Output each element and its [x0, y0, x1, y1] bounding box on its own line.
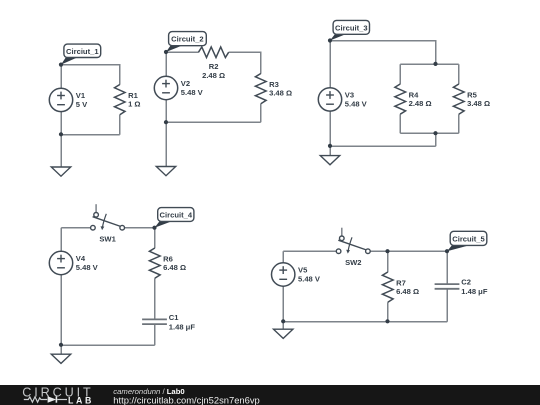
- svg-text:R3: R3: [269, 80, 279, 89]
- wire: V4 top lead: [60, 228, 62, 252]
- wire: bottom bus R4/R5: [400, 132, 459, 134]
- wire: R5 bottom lead: [458, 114, 460, 133]
- footer bar: [0, 385, 540, 405]
- wire: V3+ to parallel bank: [330, 41, 436, 65]
- wire: R3 bottom lead: [260, 104, 262, 123]
- svg-text:Circuit_4: Circuit_4: [160, 211, 193, 220]
- wire: C2 bottom lead: [446, 289, 448, 322]
- svg-text:V1: V1: [76, 91, 86, 100]
- svg-text:5.48 V: 5.48 V: [298, 275, 321, 284]
- wire: bank to bottom rail: [435, 133, 437, 146]
- wire: top rail circuit 1: [61, 65, 120, 85]
- wire: ground lead circuit 5: [282, 322, 284, 330]
- node label Circuit_3: [328, 20, 370, 42]
- wire: V3 bottom lead: [329, 111, 331, 146]
- footer project title: [113, 387, 184, 396]
- svg-text:5 V: 5 V: [76, 100, 88, 109]
- wire: bottom rail circuit 1: [61, 134, 120, 136]
- capacitor C2: [435, 278, 488, 296]
- svg-text:5.48 V: 5.48 V: [181, 88, 204, 97]
- wire: SW1 to R6 node: [125, 227, 155, 229]
- wire: V5+ to SW2: [283, 250, 337, 252]
- resistor R1: [115, 85, 141, 115]
- ground: [274, 329, 293, 338]
- junction: V1- to ground: [59, 132, 63, 136]
- junction: V2- to ground: [164, 120, 168, 124]
- wire: SW2 to C2 node: [370, 250, 447, 252]
- wire: bottom rail circuit 5: [283, 321, 447, 323]
- wire: bottom rail circuit 2: [166, 121, 261, 123]
- ground: [320, 156, 339, 165]
- resistor R5: [453, 84, 490, 114]
- svg-text:R5: R5: [467, 90, 477, 99]
- wire: R6 to C1: [154, 278, 156, 320]
- svg-text:R7: R7: [396, 278, 406, 287]
- svg-text:R2: R2: [209, 62, 219, 71]
- ground: [51, 354, 70, 363]
- wire: V4+ to SW1: [61, 227, 91, 229]
- node label Circuit_4: [152, 208, 194, 230]
- junction: V4- to ground: [59, 343, 63, 347]
- svg-text:5.48 V: 5.48 V: [345, 99, 368, 108]
- switch SW2: [336, 228, 370, 267]
- capacitor C1: [142, 313, 195, 331]
- node label Circuit_5: [445, 231, 487, 253]
- wire: V2+ to R2: [166, 51, 199, 53]
- svg-text:V3: V3: [345, 91, 354, 100]
- resistor R6: [149, 248, 186, 278]
- wire: V1 bottom lead: [60, 112, 62, 135]
- wire: C1 bottom lead: [154, 324, 156, 345]
- wire: V3 top lead: [329, 41, 331, 88]
- wire: R5 top lead: [458, 64, 460, 84]
- wire: ground lead circuit 1: [60, 135, 62, 168]
- svg-text:V2: V2: [181, 79, 190, 88]
- svg-text:1 Ω: 1 Ω: [128, 100, 140, 109]
- junction: V3- to ground: [328, 144, 332, 148]
- wire: R4 top lead: [399, 64, 401, 84]
- wire: ground lead circuit 3: [329, 146, 331, 156]
- wire: V2 bottom lead: [165, 100, 167, 123]
- junction: top bus feed: [433, 62, 437, 66]
- svg-text:Circuit_5: Circuit_5: [452, 234, 485, 243]
- svg-text:Circuit_3: Circuit_3: [335, 23, 368, 32]
- svg-text:Circiut_1: Circiut_1: [66, 47, 99, 56]
- wire: R2 to R3: [229, 52, 261, 74]
- wire: V5 top lead: [282, 251, 284, 263]
- node label Circuit_2: [164, 32, 206, 55]
- switch SW1: [91, 204, 125, 243]
- svg-text:2.48 Ω: 2.48 Ω: [409, 99, 432, 108]
- wire: V2 top lead: [165, 52, 167, 77]
- svg-text:C1: C1: [169, 313, 179, 322]
- resistor R3: [255, 74, 292, 104]
- svg-text:R4: R4: [409, 90, 419, 99]
- svg-text:3.48 Ω: 3.48 Ω: [467, 99, 490, 108]
- wire: ground lead circuit 4: [60, 345, 62, 354]
- resistor R7: [382, 272, 419, 302]
- wire: R7 bottom lead: [387, 302, 389, 322]
- svg-text:SW2: SW2: [345, 258, 361, 267]
- voltage source V2: [154, 76, 203, 99]
- junction: bottom bus feed: [433, 131, 437, 135]
- wire: bottom rail circuit 4: [61, 344, 155, 346]
- wire: ground lead circuit 2: [165, 122, 167, 167]
- svg-text:5.48 V: 5.48 V: [76, 263, 99, 272]
- resistor R2: [199, 47, 229, 80]
- junction: R7 top: [385, 249, 389, 253]
- junction: R7 bottom: [385, 319, 389, 323]
- resistor R4: [395, 84, 432, 114]
- wire: R6 top lead: [154, 228, 156, 249]
- svg-text:LAB: LAB: [68, 396, 91, 405]
- svg-text:2.48 Ω: 2.48 Ω: [202, 71, 225, 80]
- ground: [156, 167, 175, 176]
- svg-text:1.48 μF: 1.48 μF: [461, 287, 488, 296]
- svg-text:1.48 μF: 1.48 μF: [169, 322, 196, 331]
- svg-text:http://circuitlab.com/cjn52sn7: http://circuitlab.com/cjn52sn7en6vp: [113, 394, 259, 405]
- voltage source V4: [49, 251, 98, 274]
- svg-text:3.48 Ω: 3.48 Ω: [269, 89, 292, 98]
- ground: [51, 167, 70, 176]
- wire: V4 bottom lead: [60, 275, 62, 346]
- svg-text:R6: R6: [163, 254, 173, 263]
- wire: V1 top lead: [60, 65, 62, 89]
- svg-text:Circuit_2: Circuit_2: [171, 35, 204, 44]
- svg-text:V4: V4: [76, 254, 86, 263]
- voltage source V3: [318, 88, 367, 111]
- svg-text:6.48 Ω: 6.48 Ω: [163, 263, 186, 272]
- wire: V5 bottom lead: [282, 286, 284, 322]
- wire: C2 top lead: [446, 251, 448, 284]
- svg-text:C2: C2: [461, 278, 471, 287]
- wire: R1 bottom lead: [119, 115, 121, 135]
- footer url: [113, 394, 259, 405]
- svg-text:R1: R1: [128, 91, 138, 100]
- voltage source V5: [272, 263, 321, 286]
- svg-text:6.48 Ω: 6.48 Ω: [396, 287, 419, 296]
- wire: top bus R4/R5: [400, 63, 459, 65]
- svg-text:V5: V5: [298, 266, 308, 275]
- CircuitLab logo: [22, 385, 92, 405]
- voltage source V1: [49, 88, 88, 111]
- wire: R4 bottom lead: [399, 114, 401, 133]
- wire: bottom rail circuit 3: [330, 145, 436, 147]
- wire: R7 top lead: [387, 251, 389, 272]
- svg-text:SW1: SW1: [99, 234, 116, 243]
- node label Circiut_1: [59, 44, 101, 67]
- junction: V5- to ground: [281, 319, 285, 323]
